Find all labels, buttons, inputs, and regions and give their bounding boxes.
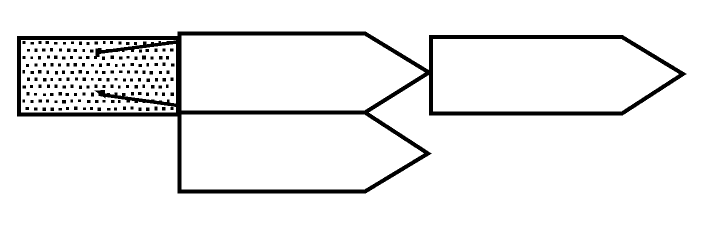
leader line 1: [96, 42, 178, 57]
stippled box: [19, 38, 178, 115]
arrow box 2: [180, 113, 429, 192]
arrow box 1: [180, 34, 430, 113]
arrow box 3: [431, 37, 683, 114]
leader line 2: [98, 91, 179, 106]
